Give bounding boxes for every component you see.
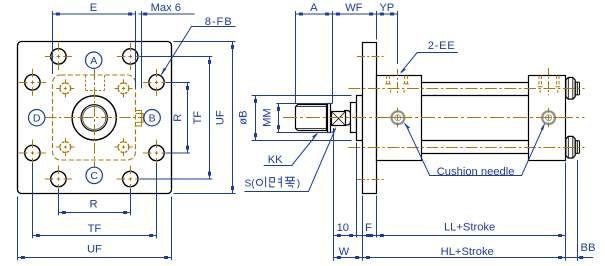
rod thread root circle (83, 106, 106, 129)
svg-text:B: B (149, 113, 156, 125)
main rod centerline (283, 117, 585, 119)
gland boss (351, 103, 357, 133)
svg-text:WF: WF (345, 2, 363, 14)
svg-text:LL+Stroke: LL+Stroke (444, 222, 495, 234)
svg-text:BB: BB (581, 242, 596, 254)
cap port threads (2-EE) (538, 68, 560, 95)
head block (377, 76, 422, 161)
tie rod tapped hole bottom-right (115, 138, 133, 156)
flange plate (side) (363, 43, 377, 194)
mounting hole left-upper (25, 75, 40, 90)
mounting hole left-lower (25, 145, 40, 160)
tie rod tapped hole top-left (56, 79, 74, 97)
svg-text:S(: S( (245, 178, 256, 189)
svg-text:10: 10 (337, 222, 349, 234)
svg-text:KK: KK (268, 154, 283, 166)
svg-text:Cushion needle: Cushion needle (437, 166, 515, 178)
dimension TF (horizontal, bottom) (33, 163, 157, 238)
bottom dimensions line 1: 10, F, LL+Stroke (334, 128, 578, 261)
mounting hole top-left (51, 49, 66, 64)
dimension R (vertical) (166, 83, 190, 154)
tie rod top centerline (348, 88, 584, 90)
bore horizontal centerline (46, 117, 144, 119)
svg-text:UF: UF (215, 110, 227, 125)
dimension oB (252, 96, 352, 141)
port A hidden hole (top face) (86, 75, 105, 90)
tie rod nut bottom (566, 136, 575, 158)
dimension E (53, 11, 136, 89)
svg-text:): ) (297, 178, 300, 189)
svg-text:R: R (89, 199, 97, 211)
rod thread root lines (296, 107, 326, 129)
tie rod tapped hole top-right (115, 79, 133, 97)
dimension WF (333, 11, 377, 40)
svg-text:F: F (365, 222, 372, 234)
mounting hole bottom-left (51, 171, 66, 186)
svg-text:TF: TF (88, 223, 102, 235)
rod thread section (296, 105, 327, 131)
port label D (29, 110, 45, 126)
mounting hole top-right (123, 49, 138, 64)
tie rod bottom centerline (348, 147, 584, 149)
label 8-FB with leader (162, 27, 236, 75)
dimension Max 6 (139, 11, 195, 89)
cap block (529, 76, 566, 161)
head port threads (2-EE) (385, 69, 408, 95)
label S text (245, 176, 301, 189)
label S(width across flats) with leader (245, 129, 336, 192)
wrench flats square with X (332, 112, 346, 126)
dimension A (296, 11, 333, 104)
port B hidden boss (right face) (136, 111, 143, 127)
rod nose cap (344, 111, 351, 126)
tie rod end stub top (575, 82, 579, 95)
hidden body square (53, 75, 136, 160)
port label C (86, 167, 102, 183)
gland plate (357, 96, 363, 141)
flange bolt centerline top (357, 56, 385, 58)
label 2-EE with leader (401, 53, 458, 73)
tie rod tapped hole bottom-left (56, 138, 74, 156)
label KK with leader (264, 134, 317, 166)
svg-text:A: A (310, 2, 318, 14)
svg-text:Max 6: Max 6 (151, 2, 181, 14)
svg-text:YP: YP (379, 2, 394, 14)
svg-text:2-EE: 2-EE (428, 40, 456, 52)
port label A (86, 52, 102, 68)
label Cushion needle with leaders (405, 124, 544, 176)
svg-text:E: E (90, 2, 97, 14)
bottom dimensions line 2: W, HL+Stroke, BB (334, 257, 594, 259)
svg-text:MM: MM (262, 108, 274, 127)
tie rod top (between head and cap) (422, 83, 529, 96)
dimension TF (vertical) (140, 57, 212, 180)
cushion needle (head) (388, 108, 408, 128)
dimension UF (vertical) (174, 42, 236, 194)
tie rod end stub bottom (575, 141, 579, 154)
mounting hole right-lower (149, 145, 164, 160)
mounting hole bottom-right (123, 171, 138, 186)
rod shoulder collar (328, 104, 331, 133)
mounting hole right-upper (149, 75, 164, 90)
bore circle outer (72, 96, 116, 140)
hangul glyphs (256, 176, 294, 187)
tie rod nut top (566, 78, 575, 100)
svg-text:D: D (33, 113, 41, 125)
svg-text:R: R (172, 114, 184, 122)
svg-text:8-FB: 8-FB (205, 16, 233, 28)
dimension UF (horizontal, bottom) (18, 197, 172, 261)
svg-text:A: A (90, 55, 97, 67)
cushion needle (cap) (539, 108, 559, 128)
svg-text:W: W (339, 246, 350, 258)
dimension MM (276, 104, 332, 133)
port label B (144, 110, 160, 126)
tie rod bottom (between head and cap) (422, 141, 529, 154)
svg-text:øB: øB (237, 110, 249, 124)
svg-text:HL+Stroke: HL+Stroke (441, 246, 494, 258)
bore vertical centerline (94, 69, 96, 167)
flange bolt centerline bottom (357, 179, 385, 181)
rod thread circle (81, 105, 107, 131)
dimension YP (377, 11, 398, 64)
svg-text:C: C (90, 170, 98, 182)
svg-text:TF: TF (192, 111, 204, 125)
svg-text:UF: UF (87, 244, 102, 256)
dimension R (horizontal, bottom) (59, 189, 131, 215)
flange plate outline (18, 42, 172, 194)
